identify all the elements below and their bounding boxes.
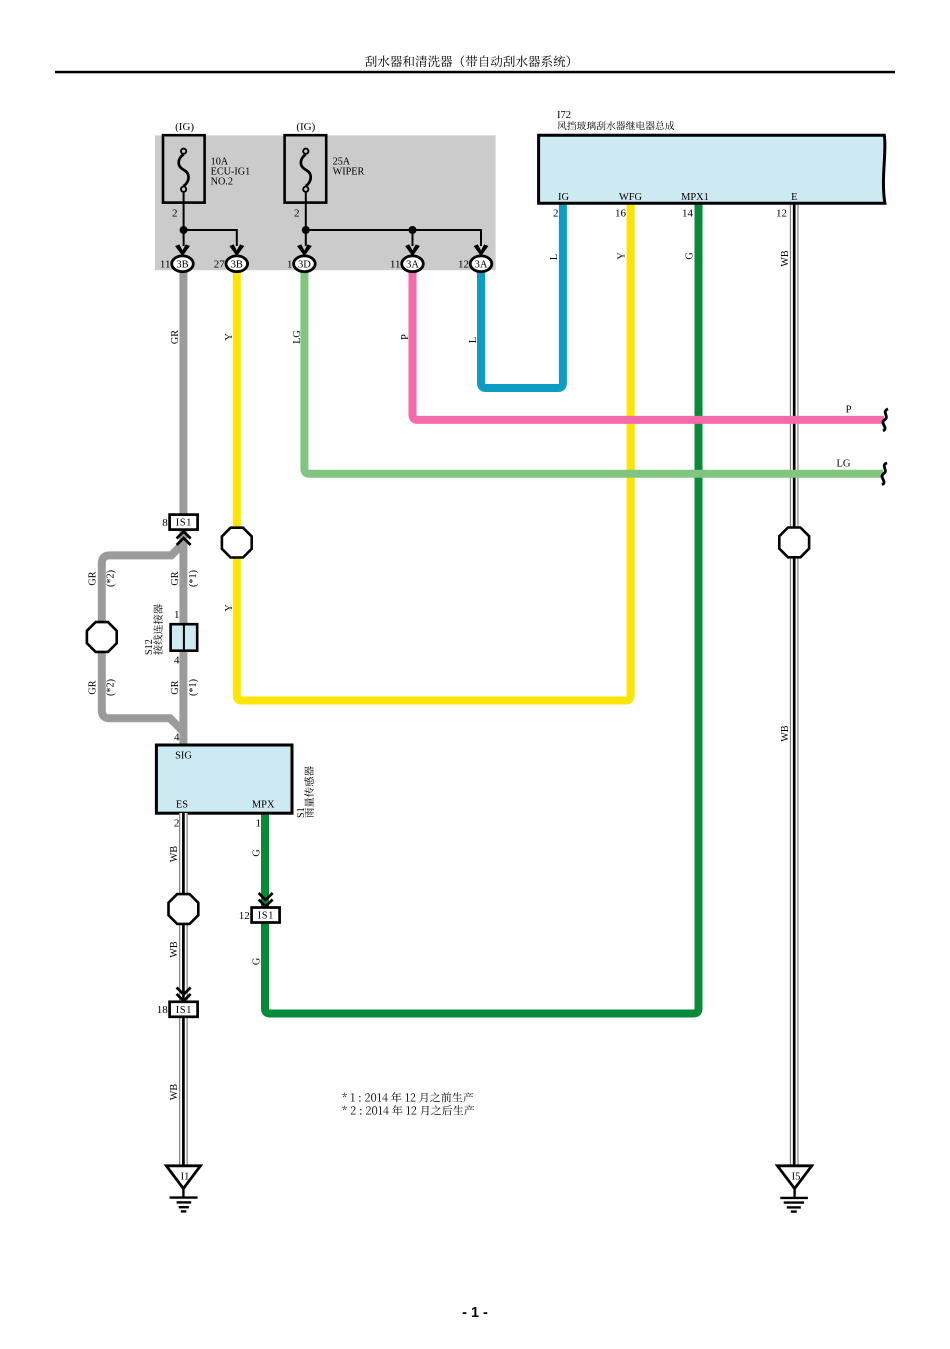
wire Y from 3B-27 to I72 WFG [237, 203, 631, 701]
svg-text:GR: GR [170, 680, 181, 694]
connector 3B pin 27 [226, 256, 248, 272]
wire GR branch (*2) loop [102, 543, 184, 732]
splice S12 box [171, 624, 198, 651]
rain sensor S1 box [156, 745, 292, 813]
svg-text:WB: WB [169, 846, 180, 863]
svg-text:Y: Y [224, 604, 235, 612]
svg-text:Y: Y [617, 252, 628, 260]
relay I72 windshield wiper relay assy box [539, 135, 885, 203]
svg-text:3A: 3A [475, 260, 488, 271]
wire G from I72 MPX1 to S1 MPX [265, 203, 699, 1014]
ground I5 stem [793, 1189, 795, 1198]
ground I1 stem [182, 1189, 184, 1198]
svg-text:3D: 3D [298, 260, 311, 271]
wire node B down [305, 230, 307, 246]
svg-text:G: G [252, 957, 263, 965]
junction block panel [155, 135, 496, 270]
wire P from 3A-11 to right break [413, 270, 885, 420]
chevron arrow down into IS1-12 [259, 900, 273, 907]
svg-text:WB: WB [169, 941, 180, 958]
ground I1 triangle [166, 1166, 200, 1189]
svg-text:S12: S12 [144, 639, 155, 655]
wire node A to 3B-27 [184, 230, 237, 246]
arrow into 3B-11 [175, 244, 190, 256]
svg-text:12: 12 [458, 259, 469, 271]
connector IS1 pin 8 [170, 515, 198, 530]
fuse F1 10A ECU-IG1 NO.2 [163, 135, 205, 202]
svg-text:16: 16 [615, 208, 627, 220]
svg-text:GR: GR [170, 330, 181, 344]
title underline [55, 71, 895, 74]
wire node B to 3A-12 [306, 230, 481, 246]
svg-text:GR: GR [88, 571, 99, 585]
wire WB from I72 E to ground I5 [790, 203, 799, 1166]
svg-text:LG: LG [837, 459, 851, 470]
svg-text:- 1 -: - 1 - [462, 1305, 488, 1321]
connector 3A pin 12 [470, 256, 492, 272]
ground I5 bar 4 [791, 1210, 797, 1212]
svg-text:G: G [252, 849, 263, 857]
node B junction dot [302, 226, 310, 234]
svg-text:3B: 3B [176, 260, 188, 271]
svg-text:L: L [549, 254, 560, 260]
svg-text:GR: GR [170, 571, 181, 585]
svg-text:WB: WB [169, 1084, 180, 1101]
svg-text:27: 27 [214, 259, 226, 271]
svg-text:G: G [685, 252, 696, 260]
svg-text:(*2): (*2) [106, 679, 117, 696]
svg-text:18: 18 [157, 1004, 169, 1016]
svg-text:I1: I1 [181, 1171, 190, 1182]
title 刮水器和清洗器（带自动刮水器系统） [365, 55, 570, 67]
svg-text:12: 12 [239, 910, 250, 922]
svg-text:4: 4 [174, 655, 180, 667]
svg-text:IS1: IS1 [176, 1005, 192, 1016]
in-line connector octagon on Y wire [222, 528, 252, 558]
wire node A down [183, 230, 185, 246]
wire L from 3A-12 to I72 IG [481, 203, 563, 388]
svg-text:(IG): (IG) [175, 121, 194, 133]
arrow into 3A-11 [405, 244, 420, 256]
svg-text:11: 11 [160, 259, 171, 271]
arrow into 3D-1 [297, 244, 312, 256]
svg-text:IS1: IS1 [176, 518, 192, 529]
svg-text:SIG: SIG [175, 751, 192, 762]
svg-text:1: 1 [174, 609, 180, 621]
break symbol LG wire [882, 463, 887, 485]
svg-text:(*2): (*2) [106, 570, 117, 587]
wire node C down [412, 230, 414, 246]
ground I1 bar 3 [179, 1206, 189, 1208]
connector 3A pin 11 [402, 256, 424, 272]
svg-text:P: P [846, 405, 852, 416]
svg-text:MPX: MPX [252, 800, 275, 811]
svg-text:I72: I72 [557, 110, 571, 121]
svg-text:2: 2 [174, 817, 180, 829]
svg-text:ES: ES [176, 800, 188, 811]
svg-text:(IG): (IG) [296, 121, 315, 133]
wire F1 to node A [183, 192, 185, 230]
in-line connector octagon on WB right wire [779, 528, 809, 558]
connector 3D pin 1 [294, 256, 316, 272]
svg-text:(*1): (*1) [188, 679, 199, 696]
svg-text:NO.2: NO.2 [211, 176, 233, 187]
svg-text:1: 1 [256, 817, 262, 829]
ground I1 bar 2 [177, 1201, 192, 1203]
connector IS1 pin 12 [252, 908, 280, 923]
ground I5 bar 3 [787, 1206, 801, 1208]
node C junction dot [409, 226, 417, 234]
svg-text:IS1: IS1 [258, 911, 274, 922]
wire LG from 3D-1 to right break [304, 270, 883, 474]
ground I5 bar 1 [780, 1197, 808, 1199]
splice S12 name 接线连接器 [153, 604, 163, 654]
svg-text:14: 14 [682, 208, 694, 220]
svg-text:WB: WB [780, 725, 791, 742]
chevron arrow up into IS1-8 [177, 532, 191, 539]
break symbol P wire [883, 409, 888, 431]
svg-text:MPX1: MPX1 [681, 192, 709, 203]
fuse F2 25A WIPER [285, 135, 327, 202]
svg-text:8: 8 [162, 517, 168, 529]
in-line connector octagon on WB left wire [169, 894, 199, 924]
note *1 2014-12 之前生产 [342, 1092, 473, 1102]
ground I5 bar 2 [784, 1201, 804, 1203]
chevron arrow down into IS1-18 [177, 994, 191, 1001]
svg-text:GR: GR [88, 680, 99, 694]
wire GR from 3B-11 to S1 SIG [179, 270, 187, 745]
svg-text:2: 2 [172, 207, 178, 219]
svg-text:12: 12 [776, 208, 787, 220]
connector 3B pin 11 [172, 256, 194, 272]
wire WB from S1 ES to ground I1 [179, 813, 188, 1166]
svg-text:IG: IG [558, 192, 569, 203]
arrow into 3B-27 [229, 244, 244, 256]
ground I1 bar 4 [181, 1210, 186, 1212]
svg-text:2: 2 [553, 208, 559, 220]
sensor S1 name 雨量传感器 [304, 766, 314, 817]
ground I1 bar 1 [170, 1196, 198, 1198]
wire F2 to node B [305, 192, 307, 230]
relay I72 name 风挡玻璃刮水器继电器总成 [557, 121, 674, 130]
svg-text:WB: WB [780, 250, 791, 267]
svg-text:2: 2 [294, 207, 300, 219]
ground I5 triangle [777, 1166, 811, 1189]
svg-text:WIPER: WIPER [333, 167, 365, 178]
svg-text:P: P [400, 334, 411, 340]
svg-text:E: E [791, 192, 797, 203]
svg-text:11: 11 [390, 259, 401, 271]
svg-text:3B: 3B [231, 260, 243, 271]
in-line connector octagon on GR branch [87, 622, 117, 652]
svg-text:1: 1 [287, 259, 293, 271]
svg-text:WFG: WFG [619, 192, 643, 203]
svg-text:4: 4 [174, 731, 180, 743]
svg-text:3A: 3A [406, 260, 419, 271]
connector IS1 pin 18 [170, 1002, 198, 1017]
svg-text:I5: I5 [792, 1171, 801, 1182]
svg-text:Y: Y [224, 333, 235, 341]
arrow into 3A-12 [474, 244, 489, 256]
svg-text:(*1): (*1) [188, 570, 199, 587]
note *2 2014-12 之后生产 [342, 1105, 474, 1115]
svg-text:LG: LG [292, 330, 303, 344]
node A junction dot [180, 226, 188, 234]
svg-text:L: L [468, 337, 479, 343]
